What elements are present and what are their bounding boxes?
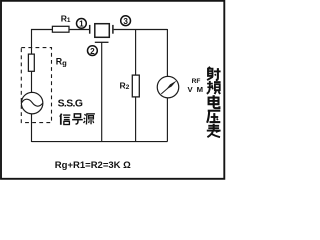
svg-text:V: V	[188, 85, 194, 94]
thermocouple box	[95, 24, 110, 38]
频	[207, 81, 221, 94]
resistor R1	[52, 26, 69, 32]
resistor R2	[132, 75, 139, 97]
wire source bottom to bottom rail	[31, 114, 33, 142]
node 2	[88, 46, 98, 56]
node 1	[77, 19, 87, 29]
wire meter bottom to bottom rail	[166, 98, 168, 142]
terminal bar right of box	[112, 25, 114, 34]
meter U1 (RF voltmeter)	[157, 76, 179, 98]
表	[207, 124, 221, 137]
wire node2 vertical from T-bar to bottom rail	[101, 42, 103, 141]
resistor Rg	[28, 54, 34, 71]
信	[60, 114, 70, 125]
源	[84, 114, 95, 125]
电	[209, 95, 220, 108]
svg-text:1: 1	[79, 20, 84, 29]
svg-text:S.S.G: S.S.G	[58, 99, 83, 110]
label 信号源 (hand-drawn glyphs)	[60, 114, 95, 125]
label 射频电压表 (vertical, hand-drawn glyphs)	[207, 67, 221, 137]
wire R2 bottom to bottom rail	[135, 97, 137, 142]
node 3	[121, 16, 131, 26]
dashed box around source	[21, 48, 51, 123]
wire top-left corner from Rg up to R1	[32, 30, 53, 55]
T-bar under box	[95, 41, 109, 43]
压	[207, 111, 220, 123]
wire bottom rail	[32, 141, 168, 143]
source S.S.G (signal generator)	[21, 92, 43, 114]
射	[207, 67, 221, 80]
wire Rg bottom to source top	[31, 71, 33, 92]
wire branch from top rail down to R2	[135, 30, 137, 76]
wire R1 to left terminal	[69, 29, 89, 31]
svg-text:2: 2	[90, 47, 95, 56]
号	[72, 114, 83, 124]
wire right vertical down to meter	[166, 29, 168, 76]
terminal bar left of box	[89, 25, 91, 34]
svg-text:Rg+R1=R2=3K Ω: Rg+R1=R2=3K Ω	[55, 160, 131, 171]
svg-text:M: M	[197, 85, 203, 94]
svg-text:Rg: Rg	[56, 57, 67, 68]
wire right terminal to right corner	[114, 29, 168, 31]
svg-text:3: 3	[123, 17, 128, 26]
